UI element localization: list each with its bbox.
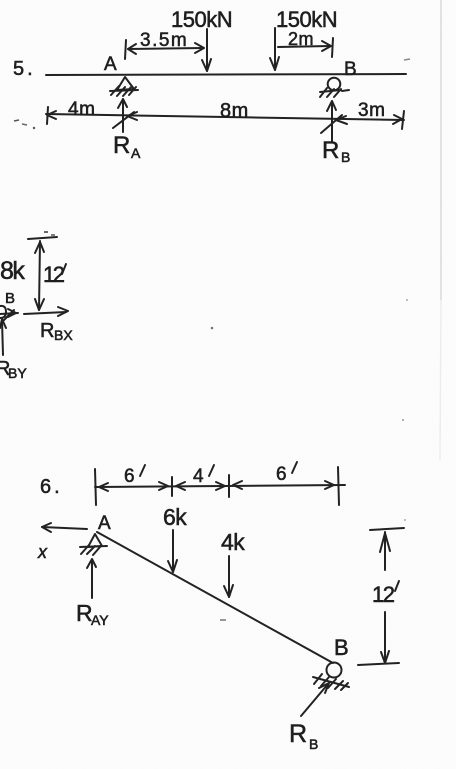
svg-text:B: B — [334, 635, 349, 660]
svg-text:3.5m: 3.5m — [140, 30, 188, 51]
svg-text:BY: BY — [8, 365, 27, 381]
svg-text:4m: 4m — [68, 99, 95, 120]
svg-text:6.: 6. — [40, 476, 63, 498]
svg-text:4k: 4k — [221, 529, 245, 555]
svg-text:R: R — [40, 320, 54, 342]
svg-text:B: B — [344, 59, 357, 80]
svg-text:6: 6 — [124, 466, 135, 487]
svg-text:B: B — [309, 736, 318, 752]
svg-text:150kN: 150kN — [171, 7, 232, 32]
svg-text:A: A — [98, 513, 111, 534]
svg-text:x: x — [37, 542, 48, 562]
svg-text:12: 12 — [372, 582, 395, 607]
svg-text:B: B — [5, 290, 15, 307]
svg-text:A: A — [104, 54, 117, 75]
svg-text:R: R — [113, 132, 130, 159]
svg-text:8m: 8m — [220, 100, 249, 122]
svg-text:R: R — [322, 137, 339, 164]
svg-text:5.: 5. — [13, 58, 36, 80]
svg-text:BX: BX — [54, 327, 73, 343]
svg-text:3m: 3m — [358, 100, 385, 121]
svg-text:8k: 8k — [0, 257, 25, 285]
svg-text:R: R — [289, 720, 307, 748]
svg-text:6: 6 — [276, 464, 287, 485]
svg-text:AY: AY — [91, 612, 109, 628]
svg-text:2m: 2m — [288, 29, 314, 49]
svg-text:A: A — [131, 145, 141, 161]
svg-text:4: 4 — [193, 466, 204, 487]
svg-text:6k: 6k — [163, 504, 187, 530]
svg-text:B: B — [341, 149, 350, 165]
